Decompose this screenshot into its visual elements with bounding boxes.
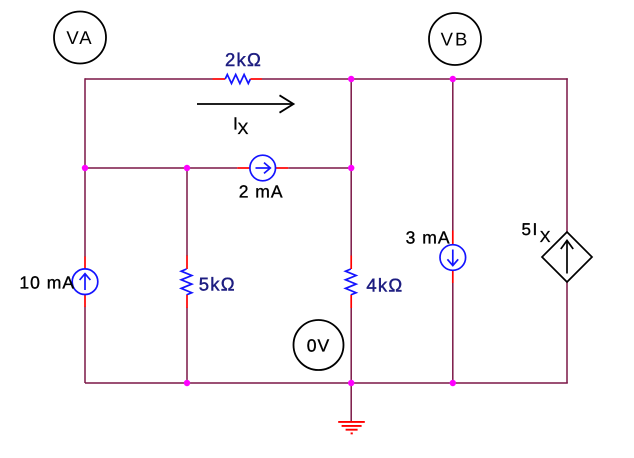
- resistor R3 4kOhm (vertical): [346, 256, 357, 309]
- node 0V: [294, 320, 344, 370]
- wire right vertical upper: [566, 78, 568, 232]
- wire top-right segment: [262, 78, 568, 80]
- svg-text:VB: VB: [441, 29, 470, 50]
- wire middle-right segment: [288, 167, 351, 169]
- current source I2 2 mA (horizontal, arrow right): [237, 155, 288, 181]
- resistor R2 5kOhm (vertical): [181, 256, 192, 309]
- junction dot bottom at ground: [348, 380, 354, 386]
- resistor R1 2kOhm (horizontal): [213, 75, 263, 84]
- dependent current source 5Ix (diamond, arrow up): [542, 232, 592, 282]
- junction dot middle-left: [82, 165, 88, 171]
- wire vertical at 4k lower: [350, 308, 352, 384]
- junction dot middle at 5k column: [184, 165, 190, 171]
- wire left vertical lower: [84, 307, 86, 383]
- wire left vertical upper: [84, 78, 86, 257]
- ground symbol: [338, 422, 365, 434]
- svg-text:X: X: [540, 229, 551, 246]
- node VA: [54, 12, 106, 64]
- svg-text:5kΩ: 5kΩ: [199, 274, 236, 295]
- svg-text:2kΩ: 2kΩ: [225, 49, 262, 70]
- wire top-left segment: [85, 78, 213, 80]
- wire vertical at 3mA upper: [452, 79, 454, 231]
- node VB: [429, 13, 481, 65]
- svg-text:0V: 0V: [307, 336, 330, 356]
- wire ground stub: [350, 383, 352, 421]
- junction dot bottom at 3mA column: [450, 380, 456, 386]
- wire middle-left segment: [85, 167, 237, 169]
- label 5Ix: [522, 220, 551, 246]
- current source I1 10 mA (vertical, arrow up): [72, 257, 98, 308]
- wire vertical at 4k upper: [350, 79, 352, 256]
- wire vertical at 3mA lower: [452, 283, 454, 383]
- current source I3 3 mA (vertical, arrow down): [440, 231, 466, 284]
- wire vertical at 5k upper: [186, 168, 188, 256]
- junction dot top at 4k column: [348, 76, 354, 82]
- junction dot middle-right at 4k column: [348, 165, 354, 171]
- svg-text:5I: 5I: [522, 220, 539, 239]
- junction dot top at 3mA column: [450, 76, 456, 82]
- wire right vertical lower: [566, 282, 568, 383]
- svg-text:4kΩ: 4kΩ: [366, 275, 403, 296]
- svg-text:10 mA: 10 mA: [19, 272, 75, 292]
- wire bottom segment: [85, 382, 568, 384]
- junction dot bottom at 5k column: [184, 380, 190, 386]
- svg-text:2 mA: 2 mA: [239, 182, 284, 202]
- svg-text:3 mA: 3 mA: [406, 228, 451, 248]
- svg-text:X: X: [238, 120, 249, 138]
- wire vertical at 5k lower: [186, 308, 188, 384]
- label Ix: [233, 114, 249, 139]
- svg-text:VA: VA: [66, 27, 93, 48]
- current arrow Ix: [197, 95, 294, 112]
